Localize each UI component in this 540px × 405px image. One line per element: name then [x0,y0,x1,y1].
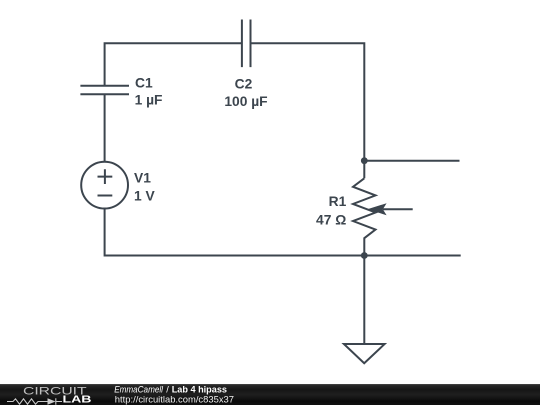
svg-text:EmmaCamell: EmmaCamell [114,384,164,394]
svg-text:100 µF: 100 µF [224,94,267,109]
svg-text:47 Ω: 47 Ω [316,213,346,228]
wire C1 bottom plate to V1 top [104,94,106,162]
wire V1 bottom to bottom rail, and bottom rail to x=460 [105,209,461,256]
R1 value label 47 ohm [316,213,346,228]
svg-text:/: / [166,384,169,394]
svg-text:1 µF: 1 µF [135,92,163,107]
ground [344,344,385,363]
svg-text:LAB: LAB [63,395,92,405]
svg-text:C1: C1 [135,76,153,91]
svg-text:1 V: 1 V [134,188,156,203]
svg-text:R1: R1 [329,194,347,209]
attribution line 1: EmmaCamell / Lab 4 hipass [114,384,227,394]
attribution line 2: url [115,395,234,405]
C2 name label [235,76,253,91]
node junction dot (R1 top) [361,157,368,164]
svg-text:C2: C2 [235,76,253,91]
capacitor C1 [80,86,129,94]
C1 value label 1 uF [135,92,163,107]
C2 value label 100 uF [224,94,267,109]
capacitor C2 [242,20,251,68]
svg-text:http://circuitlab.com/c835x37: http://circuitlab.com/c835x37 [115,395,234,405]
CircuitLab logo wordmark CIRCUIT [23,385,87,397]
wire ground stem [363,256,365,345]
C1 name label [135,76,153,91]
node junction dot (bottom rail) [361,252,368,259]
svg-text:V1: V1 [134,170,151,185]
wire right node from top junction to x=460 [364,160,459,162]
wire top-right from C2 right plate to right branch corner down to R1 top [251,43,365,178]
svg-text:Lab 4 hipass: Lab 4 hipass [172,384,227,394]
potentiometer R1 wiper arrow [367,203,412,215]
footer bar [0,384,540,405]
potentiometer R1 zigzag body [353,178,376,255]
R1 name label [329,194,347,209]
V1 name label [134,170,151,185]
CircuitLab logo resistor zigzag and diode glyph [7,398,62,405]
CircuitLab logo wordmark LAB [63,395,92,405]
wire top-left from C1 branch corner to C2 left plate [105,43,242,86]
voltage source V1 [81,162,128,209]
V1 value label 1 V [134,188,156,203]
